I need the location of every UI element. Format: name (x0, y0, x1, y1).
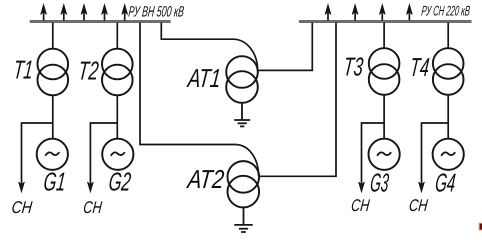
feeder arrow 2 on 500kV bus (61, 5, 67, 21)
transformer T4 (433, 48, 464, 79)
svg-text:РУ ВН 500 кВ: РУ ВН 500 кВ (128, 4, 185, 21)
svg-text:АТ2: АТ2 (185, 164, 226, 194)
feeder arrow 1 on 220kV bus (325, 5, 331, 21)
feeder arrow 3 on 220kV bus (379, 5, 385, 21)
bus: РУ СН 220 кВ (right 220 kV busbar) (299, 20, 472, 23)
wire: 500kV bus to transformer T1 (52, 23, 54, 49)
bus: РУ ВН 500 кВ (left 500 kV busbar) (30, 20, 171, 23)
wire: AT2 to 220kV bus (259, 23, 336, 177)
generator G1 (37, 139, 68, 170)
wire: 220kV bus to transformer T3 (383, 23, 385, 49)
arrow: auxiliary tap СН of unit 3 (359, 122, 365, 192)
svg-text:G1: G1 (42, 167, 67, 197)
wire: T4 to generator G4 (447, 95, 449, 139)
wire: 500kV bus to transformer T2 (116, 23, 118, 49)
wire: 500kV bus feed to autotransformer AT1 (161, 23, 257, 71)
wire: branch to auxiliary load of unit 2 (90, 122, 117, 124)
autotransformer AT1 (226, 56, 258, 88)
svg-text:РУ СН 220 кВ: РУ СН 220 кВ (421, 3, 471, 19)
svg-text:G2: G2 (107, 167, 132, 197)
ground of AT1 neutral (234, 103, 250, 127)
wire: 220kV bus to transformer T4 (447, 23, 449, 49)
svg-text:Т2: Т2 (77, 56, 100, 86)
arrow: auxiliary tap СН of unit 1 (19, 122, 25, 192)
svg-text:Т4: Т4 (409, 52, 431, 82)
wire: branch to auxiliary load of unit 3 (362, 122, 385, 124)
feeder arrow 4 on 500kV bus (102, 5, 108, 21)
svg-text:G3: G3 (369, 168, 391, 198)
arrow: auxiliary tap СН of unit 4 (419, 122, 425, 192)
svg-text:Т1: Т1 (12, 55, 34, 85)
wire: T2 to generator G2 (116, 95, 118, 139)
svg-text:СН: СН (350, 196, 371, 215)
wire: T3 to generator G3 (383, 95, 385, 139)
wire: T1 to generator G1 (52, 95, 54, 139)
svg-text:СН: СН (408, 196, 429, 215)
svg-text:АТ1: АТ1 (185, 63, 222, 93)
wire: branch to auxiliary load of unit 4 (422, 122, 449, 124)
transformer T1 (38, 49, 69, 80)
transformer T2 (102, 49, 133, 80)
ground of AT2 neutral (234, 208, 252, 233)
svg-text:Т3: Т3 (342, 52, 365, 82)
feeder arrow 3 on 500kV bus (81, 5, 87, 21)
artifact: dark red mark at right edge (479, 223, 482, 231)
feeder arrow 5 on 500kV bus (122, 5, 128, 21)
svg-text:СН: СН (11, 198, 34, 217)
feeder arrow 1 on 500kV bus (41, 5, 47, 21)
generator G3 (369, 139, 400, 170)
wire: branch to auxiliary load of unit 1 (22, 122, 53, 124)
generator G2 (102, 139, 133, 170)
generator G4 (433, 139, 464, 170)
wire: AT1 to 220kV bus (258, 23, 313, 71)
arrow: auxiliary tap СН of unit 2 (88, 122, 94, 192)
feeder arrow 4 on 220kV bus (407, 5, 413, 21)
feeder arrow 2 on 220kV bus (352, 5, 358, 21)
transformer T3 (369, 48, 400, 79)
svg-text:G4: G4 (434, 168, 457, 198)
autotransformer AT2 (228, 161, 260, 193)
wire: 500kV bus feed to autotransformer AT2 (140, 23, 259, 177)
svg-text:СН: СН (82, 198, 103, 217)
